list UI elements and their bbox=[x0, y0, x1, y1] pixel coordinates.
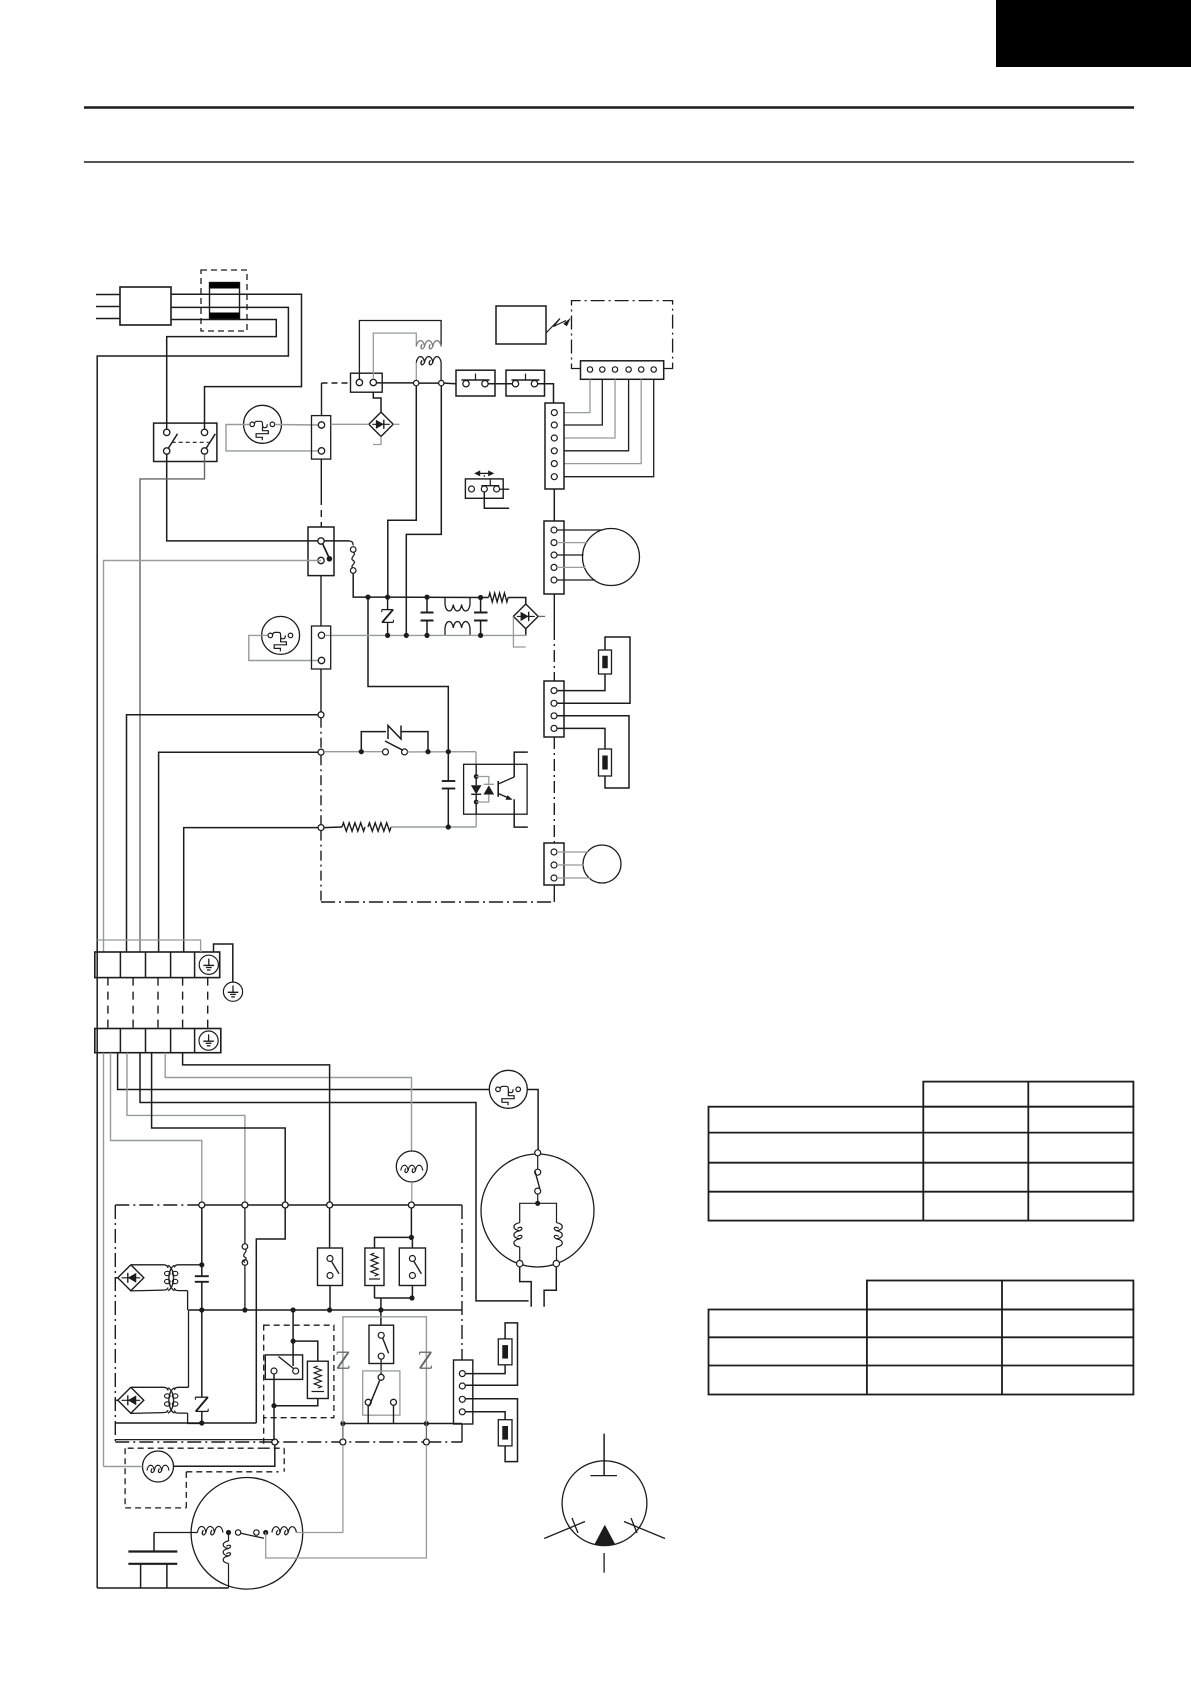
interlock switch SW3 (secondary) bbox=[506, 370, 545, 396]
select switch SW12 (3P) bbox=[465, 479, 503, 498]
terminal strip TB1 bbox=[95, 952, 220, 978]
header rule 1 bbox=[84, 106, 1134, 109]
wire: module legs to border nodes bbox=[342, 1424, 344, 1440]
wire: cutout TC1 right lead bbox=[276, 424, 319, 427]
header rule 2 bbox=[84, 161, 1134, 163]
wire: TB2 to lower PCB node LN3 bbox=[152, 1053, 286, 1202]
bus: CN3 to CN4 (dash-dot) bbox=[553, 594, 555, 628]
thermal cutout TC3 (heater) bbox=[489, 1070, 527, 1108]
wire: CN5 to PCB bottom border bbox=[553, 885, 555, 902]
wire: D1 left stub bbox=[331, 423, 369, 425]
wire: cutout TC1 left lead bbox=[226, 425, 318, 451]
centrifugal switch SW11 bbox=[235, 1530, 240, 1535]
node N2 bbox=[318, 749, 324, 755]
varistor ZNR1 bbox=[382, 609, 394, 611]
heater motor M3 bbox=[481, 1154, 594, 1267]
wire: N2 to terminal strip bbox=[159, 752, 318, 952]
connector CN4 (4P) bbox=[544, 681, 564, 737]
door switch SW8 bbox=[265, 1355, 302, 1380]
wire: R5 bottom loop bbox=[274, 1399, 318, 1406]
capacitor C1 bbox=[426, 597, 428, 612]
wire: CN6 pin1 to F5 bbox=[465, 1365, 505, 1374]
wire: relay output to terminal column bbox=[140, 454, 205, 952]
wire: U1 output brackets bbox=[514, 752, 528, 777]
wire: F3 to CN4 pin3 bbox=[557, 716, 629, 788]
PCB rail (relay commons) bbox=[189, 1309, 463, 1311]
wire: line 2 plug to left column bbox=[97, 307, 288, 952]
wire: CN4 pin4 to F3 bbox=[557, 728, 605, 749]
wire: D2 bottom to rail bbox=[525, 629, 527, 636]
switch SW5 (inside M3) bbox=[537, 1156, 539, 1169]
connector CN6 (4P) bbox=[454, 1360, 473, 1424]
PCB bottom rail right bbox=[343, 1423, 462, 1425]
node B bbox=[439, 380, 444, 385]
motor M1 (stirrer/fan) bbox=[583, 529, 640, 586]
wire: TB2 to lower PCB node LN2 bbox=[127, 1053, 245, 1202]
rectifier D4 (second coil supply) bbox=[118, 1387, 144, 1413]
thermal cutout TC2 (oven) bbox=[262, 616, 300, 654]
node N3 bbox=[318, 825, 324, 831]
resistor R2 bbox=[324, 826, 342, 829]
bottom stub bbox=[603, 1553, 605, 1573]
fuse F3 bbox=[599, 749, 612, 776]
rectifier D3 (relay coil supply) bbox=[118, 1265, 144, 1291]
wire: node B to filter bbox=[406, 386, 441, 636]
wire: R3 to optocoupler bbox=[391, 826, 476, 828]
winding M4 main bbox=[197, 1526, 223, 1534]
bus: CN4 to CN5 (dash-dot) bbox=[553, 737, 555, 843]
node LN5 bbox=[408, 1202, 414, 1208]
wire: M3 right terminal out bbox=[544, 1267, 556, 1307]
wire: D1 bottom stub bbox=[373, 437, 381, 445]
relay contact SW10 bbox=[363, 1371, 400, 1415]
wire: TB2 to heater cutout bbox=[118, 1053, 490, 1090]
wire: lamp L5 left lead bbox=[104, 1466, 143, 1468]
thermal cutout TC1 (magnetron) bbox=[244, 405, 282, 443]
wire: lamp L5 right lead to LN6 bbox=[174, 1445, 275, 1466]
wire: SW1 vertical to CN-A bbox=[320, 459, 322, 498]
fuse F5 bbox=[498, 1339, 512, 1365]
wire: choke L2 left leg to node A bbox=[415, 363, 417, 381]
wire: N3 to terminal strip bbox=[184, 828, 318, 952]
motor M2 (turntable) bbox=[583, 845, 621, 883]
connector CN1 (6P) bbox=[545, 403, 564, 489]
winding M4 aux bbox=[272, 1527, 296, 1535]
fuse F6 bbox=[498, 1420, 512, 1446]
capacitor C5 (fan run) bbox=[154, 1532, 197, 1534]
magnetron connector CN-B (2P) bbox=[351, 373, 383, 392]
fuse F2 bbox=[599, 650, 612, 674]
resistor R4 (heater dropping) bbox=[365, 1248, 384, 1286]
transformer T2 bbox=[131, 1387, 168, 1390]
wire: TB2 to lower PCB node LN4 bbox=[183, 1053, 330, 1202]
wire: F1 to filter rail bbox=[353, 573, 369, 597]
node LN1 bbox=[199, 1202, 205, 1208]
wire: R4/SW7 bottoms join bbox=[374, 1286, 376, 1299]
internal protector triangle bbox=[594, 1525, 616, 1545]
capacitor C2 bbox=[480, 598, 482, 613]
wire: LN3 to bottom rail bbox=[256, 1208, 285, 1423]
winding M3 right bbox=[538, 1203, 557, 1222]
wire: SW8 to node LN6 bbox=[273, 1374, 275, 1439]
optocoupler / triac driver U1 bbox=[464, 764, 527, 814]
resistor R3 bbox=[368, 823, 391, 831]
node N1 bbox=[318, 712, 324, 718]
connector CN2 (6P, control PCB) bbox=[581, 361, 664, 380]
wire: SW2 to SW3 bbox=[488, 383, 512, 385]
earth terminal E3 bbox=[199, 1031, 218, 1050]
wire: lamp to node LN5 bbox=[411, 1182, 413, 1202]
wire: R1 to rectifier D2 bbox=[508, 598, 526, 605]
noise filter FL1 bbox=[201, 270, 247, 331]
oven lamp L5 bbox=[143, 1451, 174, 1482]
wire: D1 right stub bbox=[393, 423, 399, 425]
varistor ZNR4 bbox=[420, 1351, 432, 1353]
cable links TB1-TB2 (dashed) bbox=[107, 978, 109, 1029]
oven lamp L4 bbox=[396, 1151, 427, 1182]
fan motor M4 bbox=[191, 1478, 303, 1590]
wire: relay to door monitor switch bbox=[167, 454, 349, 541]
filter top rail bbox=[369, 596, 489, 598]
relay module RY2 (gray outline) bbox=[343, 1317, 427, 1423]
node LN6 bbox=[272, 1439, 278, 1445]
wire: F5 to CN6 pin2 bbox=[465, 1323, 517, 1385]
PCB bottom border (dash-dot) bbox=[321, 901, 555, 903]
node LN3 bbox=[282, 1202, 288, 1208]
connector CN5 (3P, turntable motor) bbox=[544, 843, 564, 885]
wire: TC2 left lead bbox=[249, 635, 318, 660]
wire: CN4 pin1 to F2 bbox=[557, 674, 605, 691]
wire: CN-A up to magnetron connector (dashed) bbox=[321, 383, 323, 416]
PTC resistor R5 bbox=[307, 1361, 328, 1398]
thermal fuse F1 bbox=[349, 541, 353, 546]
wire: M3 left terminal out bbox=[520, 1267, 532, 1307]
page header black banner bbox=[996, 0, 1191, 67]
choke L3 (line filter) bbox=[444, 597, 446, 605]
door sensing dashed box bbox=[264, 1325, 334, 1418]
inductor L2 (filament choke) bbox=[416, 357, 441, 365]
wire: SW11 to LN8 bbox=[266, 1445, 427, 1558]
wire: M4 aux to LN7 bbox=[296, 1532, 343, 1534]
wire: line 3 plug to relay bbox=[167, 320, 277, 430]
rectifier D1 bbox=[369, 412, 393, 436]
double arrow (travel direction) bbox=[476, 472, 493, 474]
varistor ZNR3 bbox=[337, 1351, 349, 1353]
wire: CN6 pin4 to F6 bbox=[465, 1412, 505, 1420]
spec table 2 bbox=[709, 1310, 1134, 1395]
resistor R1 bbox=[489, 593, 509, 602]
wire: SW1 down to CN-C bbox=[320, 576, 322, 626]
wire: LN5 to R4/SW7 bbox=[410, 1208, 412, 1237]
relay PCB left border bbox=[114, 1205, 116, 1442]
node A bbox=[414, 380, 419, 385]
relay PCB right border bbox=[461, 1205, 463, 1360]
transformer T1 bbox=[131, 1265, 168, 1268]
wire: TC3 to heater motor switch bbox=[527, 1090, 538, 1150]
wire: F6 to CN6 pin3 bbox=[465, 1399, 517, 1462]
relay contact SW6 bbox=[329, 1208, 331, 1248]
relay contact SW7 bbox=[411, 1237, 413, 1248]
wire: neutral branch to earth cell bbox=[97, 940, 200, 952]
PCB bottom rail left bbox=[116, 1422, 256, 1424]
relay PCB top border (dash-dot) bbox=[115, 1204, 199, 1206]
control panel PCB (dash-dot outline) bbox=[572, 301, 673, 369]
wire: D2 right stub bbox=[538, 615, 545, 617]
winding M3 left bbox=[520, 1203, 538, 1222]
wire: filament loop outer bbox=[359, 321, 441, 380]
filter bottom rail bbox=[326, 634, 526, 636]
PCB left border with nodes bbox=[320, 669, 322, 712]
wire: border link bbox=[116, 1439, 275, 1441]
wires: CN2 to CN1 harness bbox=[564, 379, 591, 412]
relay RY1 (power relay, DPST) bbox=[154, 423, 217, 461]
wire: filament loop inner bbox=[373, 333, 416, 379]
chassis ground E2 bbox=[223, 982, 242, 1001]
door monitor switch SW1 bbox=[308, 527, 334, 576]
wire: TB2 to oven lamp bbox=[165, 1053, 411, 1151]
interlock switch SW2 (primary) bbox=[456, 370, 495, 396]
connector CN-A (2P) bbox=[312, 416, 331, 460]
winding lead left bbox=[544, 1522, 585, 1539]
relay contact SW4 with bypass bbox=[324, 751, 383, 753]
power plug P1 bbox=[120, 287, 171, 325]
node LN8 bbox=[423, 1439, 429, 1445]
terminal strip TB2 bbox=[95, 1029, 221, 1053]
door unit dashed boundary bbox=[263, 1418, 265, 1449]
flash arrow to control PCB bbox=[547, 319, 567, 333]
rectifier D2 bbox=[513, 604, 538, 629]
wire: line 1 plug to relay bbox=[171, 294, 302, 429]
compressor motor M5 bbox=[562, 1461, 647, 1546]
overload protector lead bbox=[603, 1434, 605, 1476]
connector CN-C (2P) bbox=[312, 626, 331, 669]
wire: LN1 chain with capacitor C4 bbox=[201, 1208, 203, 1276]
node: M3 top terminal bbox=[535, 1150, 541, 1156]
wire: rail to door switch bbox=[292, 1310, 294, 1341]
varistor ZNR2 bbox=[195, 1396, 208, 1398]
wire: N1 to terminal strip bbox=[127, 715, 319, 952]
inductor L1 (filament choke) bbox=[416, 341, 441, 349]
wire: F2 to CN4 pin2 bbox=[557, 637, 630, 703]
wire: TB2 to lower PCB node LN1 bbox=[111, 1053, 202, 1202]
wire: bridge D1 feed bbox=[373, 392, 381, 412]
display unit box bbox=[496, 306, 546, 344]
node LN7 bbox=[340, 1439, 346, 1445]
thermal fuse F4 bbox=[244, 1208, 246, 1244]
winding lead right bbox=[624, 1522, 665, 1539]
wire: SW4 to optocoupler bbox=[475, 752, 477, 765]
connector CN3 (5P, fan/lamp motor) bbox=[544, 521, 564, 594]
capacitor C3 bbox=[447, 752, 449, 781]
relay contact SW9 bbox=[369, 1325, 394, 1363]
node LN2 bbox=[242, 1202, 248, 1208]
wire: CN1 to CN3 bus bbox=[553, 489, 555, 521]
wire: D2 gray tail bbox=[513, 616, 525, 647]
spec table 1 bbox=[709, 1107, 1134, 1221]
wire: node A to filter bbox=[388, 386, 417, 597]
relay PCB bottom border bbox=[115, 1441, 462, 1443]
wire: main line CN-B to interlock switches bbox=[377, 382, 414, 384]
wire: SW3 to connector CN1 bbox=[538, 384, 554, 403]
node LN4 bbox=[327, 1202, 333, 1208]
wire: TB2 to heater motor bbox=[140, 1053, 529, 1301]
wire: SW1 to left column bbox=[104, 561, 322, 953]
wire: earth link to chassis ground bbox=[214, 944, 233, 982]
wire: rail junction down to SW4 rail bbox=[368, 597, 448, 752]
winding M4 start bbox=[223, 1541, 230, 1564]
wire: neutral run to M4 bbox=[96, 952, 98, 1588]
earth terminal E1 bbox=[199, 955, 218, 974]
wire: choke L2 right leg to node B bbox=[440, 363, 442, 381]
